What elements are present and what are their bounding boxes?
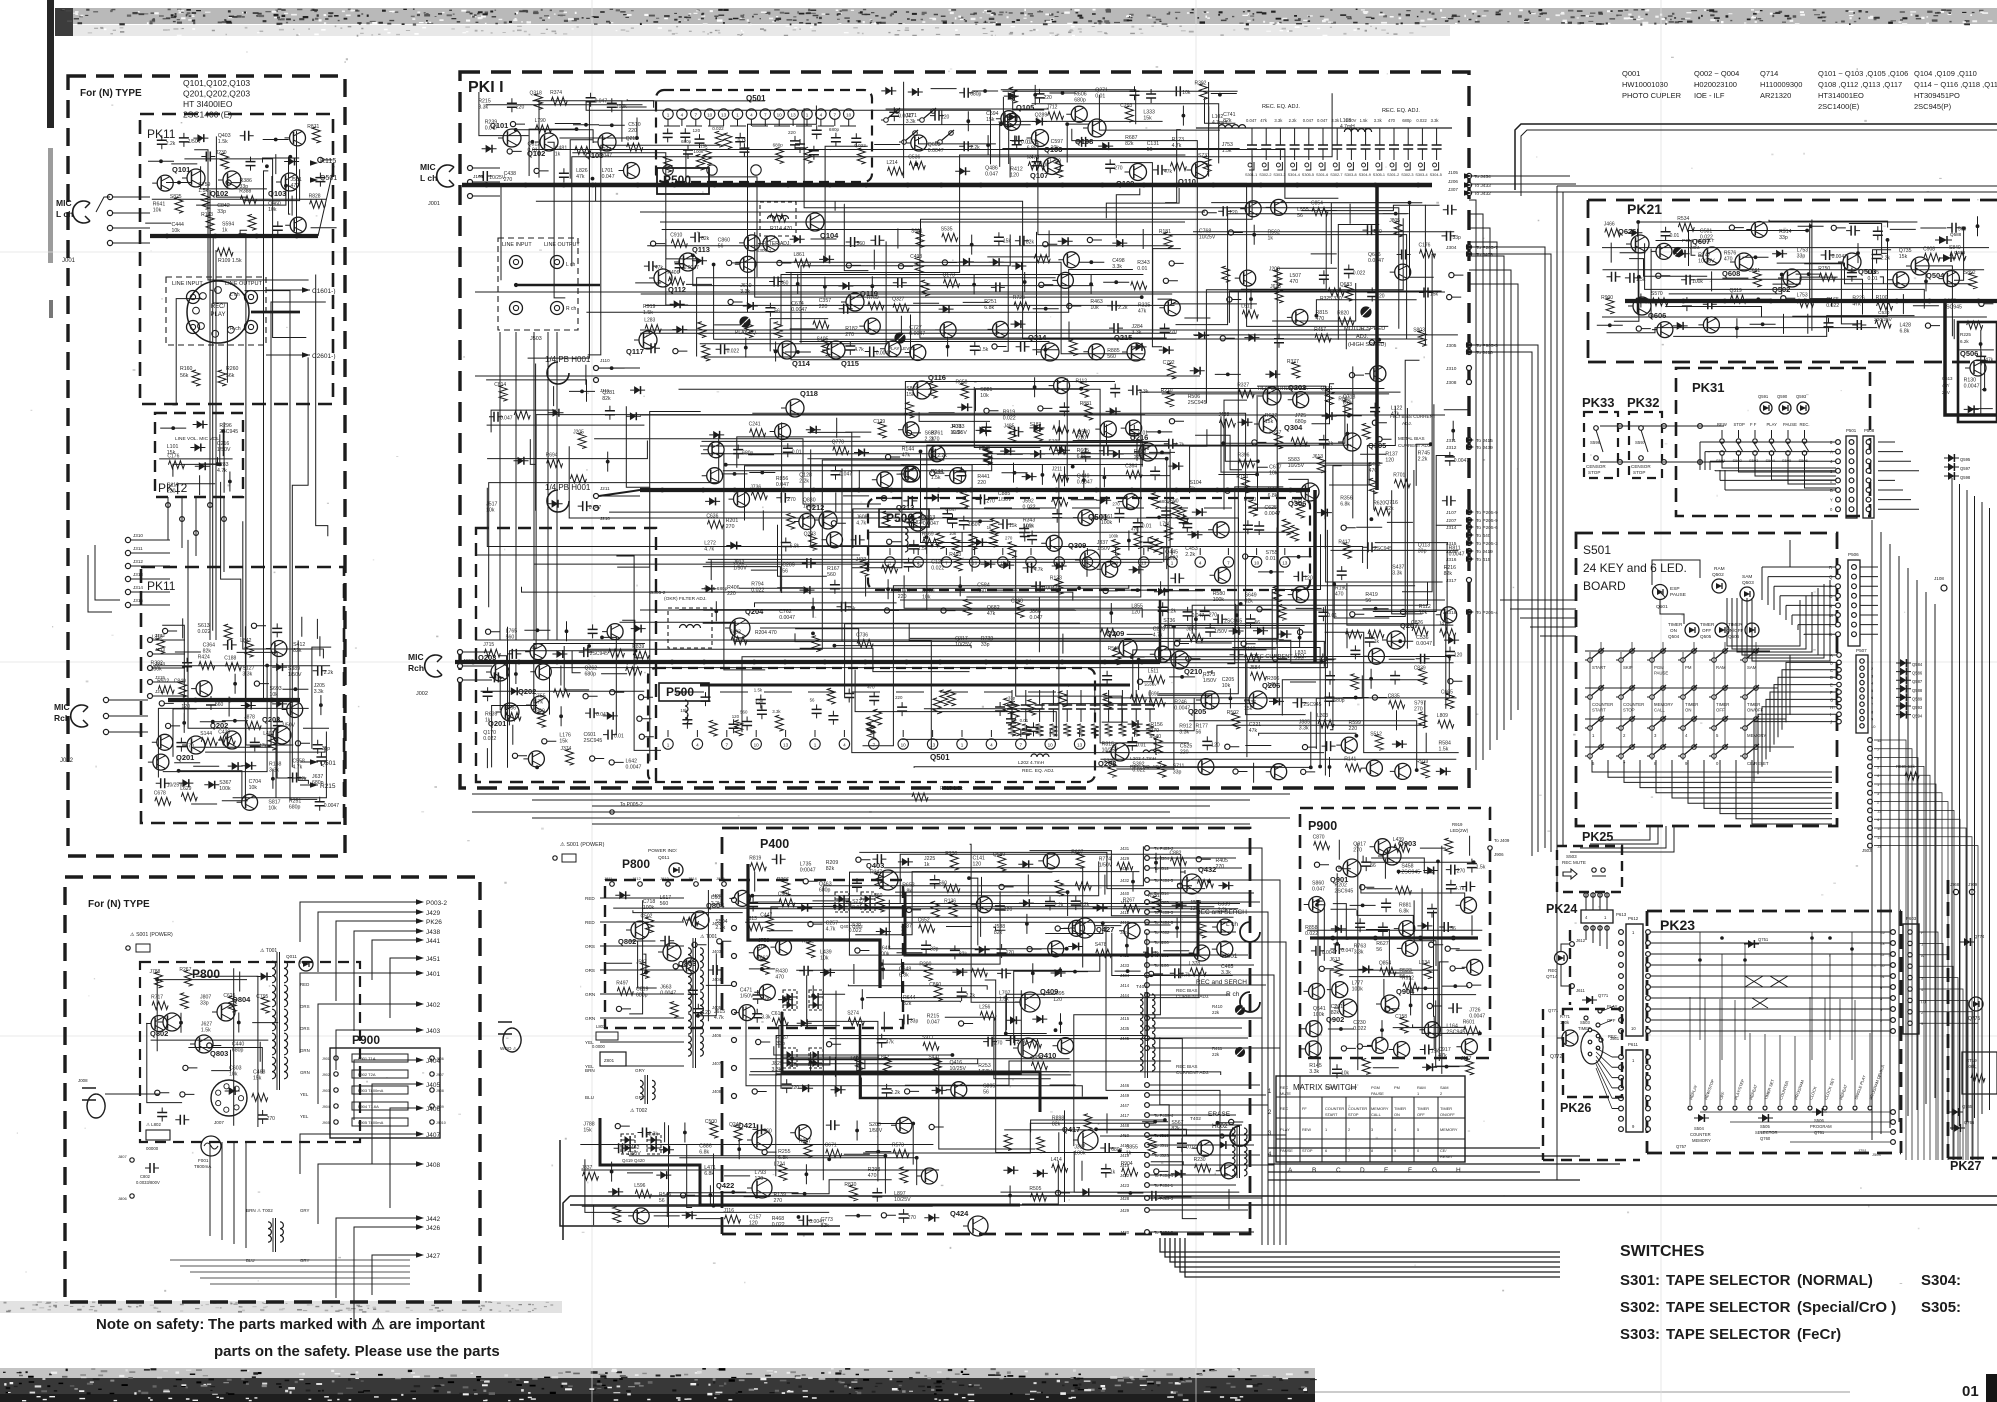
svg-text:C671: C671 xyxy=(825,1142,837,1148)
svg-text:Q204: Q204 xyxy=(745,607,764,616)
svg-text:0.0047: 0.0047 xyxy=(660,990,676,996)
thermistor block RT19 xyxy=(1962,1052,1997,1094)
svg-text:10k: 10k xyxy=(980,393,989,399)
board outline PK12 left xyxy=(155,413,243,497)
svg-text:Q107: Q107 xyxy=(1030,171,1048,180)
svg-text:0.022: 0.022 xyxy=(1003,415,1016,421)
svg-text:82k: 82k xyxy=(602,396,611,402)
svg-text:120: 120 xyxy=(1004,907,1013,913)
transistor Q802 xyxy=(631,921,649,939)
svg-text:2.2k: 2.2k xyxy=(891,1090,901,1096)
svg-text:4.7k: 4.7k xyxy=(826,926,836,932)
svg-text:10: 10 xyxy=(707,113,713,118)
svg-text:J403: J403 xyxy=(426,1028,440,1035)
svg-text:Q304: Q304 xyxy=(1284,423,1303,432)
svg-text:TIMER: TIMER xyxy=(1700,622,1715,627)
scan artifact: fold creases xyxy=(591,0,593,1402)
svg-text:56: 56 xyxy=(659,1198,665,1204)
svg-text:15k: 15k xyxy=(1265,419,1274,425)
svg-text:To J410: To J410 xyxy=(1476,350,1493,356)
cluster top mid xyxy=(885,87,1049,178)
svg-text:COUNTER: COUNTER xyxy=(1690,1132,1711,1137)
svg-text:REC MUTE: REC MUTE xyxy=(1562,860,1586,865)
svg-text:RED: RED xyxy=(300,982,309,987)
J column right of P400 xyxy=(1145,846,1150,851)
svg-text:0.01: 0.01 xyxy=(1137,266,1147,272)
svg-text:SWITCHES: SWITCHES xyxy=(1620,1243,1705,1260)
svg-text:ORS: ORS xyxy=(300,1026,310,1031)
svg-text:10: 10 xyxy=(846,113,852,118)
terminals J768 J769 xyxy=(1953,889,1958,894)
svg-text:6: 6 xyxy=(1325,1148,1327,1153)
svg-text:(OKR) FILTER ADJ.: (OKR) FILTER ADJ. xyxy=(664,596,707,602)
transistor Q901 xyxy=(1343,859,1361,877)
svg-text:6.8k: 6.8k xyxy=(899,972,909,978)
svg-text:J419: J419 xyxy=(1120,1153,1130,1158)
svg-text:82k: 82k xyxy=(1125,141,1134,147)
svg-text:560: 560 xyxy=(660,901,669,907)
svg-text:J308: J308 xyxy=(1446,380,1457,386)
svg-text:J312: J312 xyxy=(133,559,143,564)
svg-text:S592: S592 xyxy=(1733,458,1743,463)
svg-text:L753: L753 xyxy=(1797,292,1808,298)
svg-text:SAM: SAM xyxy=(1747,665,1757,670)
svg-text:TIMER: TIMER xyxy=(1417,1106,1429,1111)
svg-text:J211: J211 xyxy=(1052,467,1063,473)
svg-text:LINE VOL. MIC VOL.: LINE VOL. MIC VOL. xyxy=(175,436,220,442)
svg-text:RAM: RAM xyxy=(1417,1085,1426,1090)
svg-text:F904 T1.6A: F904 T1.6A xyxy=(358,1104,379,1109)
svg-text:STOP: STOP xyxy=(1302,1148,1313,1153)
svg-text:BLU: BLU xyxy=(585,1095,594,1100)
svg-text:220: 220 xyxy=(628,128,637,134)
svg-text:0.01: 0.01 xyxy=(1136,743,1146,749)
svg-text:STOP: STOP xyxy=(1623,708,1635,713)
svg-text:SELECTOR: SELECTOR xyxy=(1755,1130,1778,1135)
bus line main 3 xyxy=(471,660,476,665)
svg-text:L378: L378 xyxy=(1189,961,1200,967)
svg-text:Q401 Q402: Q401 Q402 xyxy=(840,924,863,929)
svg-text:R225: R225 xyxy=(1960,332,1971,337)
svg-text:TIMER: TIMER xyxy=(1747,702,1760,707)
svg-text:1/50V: 1/50V xyxy=(740,994,754,1000)
svg-text:1.5k: 1.5k xyxy=(1476,865,1486,871)
svg-text:Q101 ~ Q103 ,Q105 ,Q106: Q101 ~ Q103 ,Q105 ,Q106 xyxy=(1818,69,1908,78)
transistor Q205 xyxy=(1201,691,1219,709)
board outline PK26 xyxy=(1563,1009,1622,1097)
svg-text:RAM: RAM xyxy=(1716,665,1726,670)
connector row J401.. P400 left xyxy=(732,898,737,903)
svg-text:J715: J715 xyxy=(483,642,494,648)
scan artifact: left edge streaks xyxy=(47,0,54,128)
svg-text:S304-4: S304-4 xyxy=(1288,173,1300,177)
transistor Q110 xyxy=(1192,162,1209,179)
svg-text:C854: C854 xyxy=(1311,201,1323,207)
cluster P400 osc xyxy=(1007,1116,1236,1201)
svg-text:START: START xyxy=(1592,708,1606,713)
cluster Q506 xyxy=(1964,342,1994,413)
svg-text:J432: J432 xyxy=(1120,878,1130,883)
svg-text:R204 470: R204 470 xyxy=(755,630,777,636)
svg-text:To P905-5: To P905-5 xyxy=(1476,343,1498,349)
svg-text:S503: S503 xyxy=(1566,854,1577,859)
svg-text:L ch: L ch xyxy=(230,292,240,298)
svg-text:Q626: Q626 xyxy=(1618,227,1636,236)
svg-text:Q101,Q102,Q103: Q101,Q102,Q103 xyxy=(183,78,250,88)
svg-text:560: 560 xyxy=(740,710,748,715)
svg-text:R771: R771 xyxy=(1560,1014,1571,1019)
svg-text:J611: J611 xyxy=(1576,988,1585,993)
svg-text:J408: J408 xyxy=(712,1089,722,1094)
scan artifact: top edge band xyxy=(55,8,1997,24)
connector tail circles below xyxy=(1868,738,1873,743)
svg-text:J230: J230 xyxy=(216,150,227,156)
svg-text:To J415: To J415 xyxy=(1476,438,1493,444)
svg-text:47k: 47k xyxy=(987,611,996,617)
cluster Q105-Q110 xyxy=(999,81,1236,175)
svg-text:0.01: 0.01 xyxy=(1095,94,1105,100)
svg-text:PAUSE: PAUSE xyxy=(1371,1091,1384,1096)
svg-text:0.047: 0.047 xyxy=(1246,118,1257,123)
svg-text:Q103: Q103 xyxy=(268,189,286,198)
svg-text:0.047: 0.047 xyxy=(927,1020,940,1026)
transistor Q421 xyxy=(752,1130,772,1150)
DIN socket J561 xyxy=(1581,1030,1603,1064)
transistor Q102 main xyxy=(540,133,558,151)
transistor Q103 main xyxy=(598,133,616,151)
svg-text:Q774: Q774 xyxy=(1974,934,1985,939)
svg-text:S303-4: S303-4 xyxy=(1415,173,1427,177)
pot PLAY EQ xyxy=(740,317,750,327)
svg-text:CALL: CALL xyxy=(1654,708,1665,713)
opto Q775 xyxy=(1969,997,1983,1011)
svg-text:5: 5 xyxy=(1417,1127,1419,1132)
svg-text:To J419: To J419 xyxy=(1476,549,1493,555)
svg-text:P900: P900 xyxy=(352,1033,380,1047)
bus line main 1 xyxy=(484,183,489,188)
svg-text:10: 10 xyxy=(1048,743,1054,748)
svg-text:J448: J448 xyxy=(1120,1123,1130,1128)
svg-text:1.5k: 1.5k xyxy=(201,1028,211,1034)
svg-text:10k: 10k xyxy=(153,208,162,214)
diode Q774 xyxy=(1964,938,1970,946)
svg-text:C678: C678 xyxy=(154,790,166,796)
svg-text:PK33: PK33 xyxy=(1582,395,1615,410)
svg-text:270: 270 xyxy=(1005,536,1013,541)
svg-text:J814: J814 xyxy=(688,876,697,881)
cluster mid right xyxy=(1198,199,1461,345)
svg-text:PK32: PK32 xyxy=(1627,395,1660,410)
svg-text:15k: 15k xyxy=(559,739,568,745)
svg-text:7: 7 xyxy=(695,113,698,118)
transistor Q105 xyxy=(1004,114,1021,131)
svg-text:1: 1 xyxy=(667,113,670,118)
svg-text:J751: J751 xyxy=(1858,1148,1867,1153)
svg-text:ON/OFF: ON/OFF xyxy=(1440,1112,1455,1117)
svg-text:CENSOR: CENSOR xyxy=(1631,464,1651,469)
svg-text:AR21320: AR21320 xyxy=(1760,91,1791,100)
cluster P800N xyxy=(150,967,276,1122)
transistor Q409 xyxy=(1020,992,1040,1012)
svg-text:680p: 680p xyxy=(819,887,831,893)
svg-text:J107: J107 xyxy=(1446,510,1457,516)
svg-text:TIMER: TIMER xyxy=(1440,1106,1452,1111)
bus line PK21 xyxy=(1646,299,1651,304)
svg-text:2SC945: 2SC945 xyxy=(1188,400,1207,406)
svg-text:S594: S594 xyxy=(1766,458,1776,463)
svg-text:R230: R230 xyxy=(1194,1157,1206,1163)
transistor Q104 xyxy=(806,213,824,231)
svg-text:9: 9 xyxy=(1394,1148,1396,1153)
svg-text:Q011: Q011 xyxy=(286,954,297,959)
svg-text:BOARD: BOARD xyxy=(1583,579,1626,593)
board outline PK21 xyxy=(1588,200,1997,362)
svg-text:J105: J105 xyxy=(1448,170,1458,175)
svg-text:2: 2 xyxy=(1348,1127,1350,1132)
A-J wires to P507 xyxy=(1837,653,1842,658)
svg-text:47k: 47k xyxy=(1249,728,1258,734)
svg-text:F001: F001 xyxy=(198,1158,209,1163)
svg-text:2SC945(P): 2SC945(P) xyxy=(1914,102,1952,111)
svg-text:J008: J008 xyxy=(78,1078,88,1083)
svg-text:220: 220 xyxy=(516,104,525,110)
svg-text:S305:: S305: xyxy=(1921,1299,1961,1316)
svg-text:13: 13 xyxy=(791,113,797,118)
svg-text:(NORMAL): (NORMAL) xyxy=(1797,1272,1873,1289)
svg-text:0.0047: 0.0047 xyxy=(800,867,816,873)
svg-text:10: 10 xyxy=(972,561,978,566)
svg-text:R828: R828 xyxy=(309,193,321,199)
transistor Q101 xyxy=(187,169,205,187)
svg-text:Q001: Q001 xyxy=(1622,69,1640,78)
svg-text:L ch: L ch xyxy=(566,262,575,268)
svg-text:CURRENT ADJ.: CURRENT ADJ. xyxy=(1176,1070,1209,1075)
svg-text:SAM: SAM xyxy=(1742,574,1752,580)
svg-text:H110009300: H110009300 xyxy=(1760,80,1802,89)
svg-text:0.047: 0.047 xyxy=(1317,118,1328,123)
svg-text:R750: R750 xyxy=(1818,266,1830,272)
svg-text:120: 120 xyxy=(1010,172,1019,178)
svg-text:J613: J613 xyxy=(1312,454,1323,460)
svg-text:J001: J001 xyxy=(428,201,440,207)
svg-text:0.047: 0.047 xyxy=(1303,118,1314,123)
svg-text:15k: 15k xyxy=(1899,254,1908,260)
svg-text:R410: R410 xyxy=(1212,1004,1223,1009)
cluster Lch input xyxy=(478,90,640,183)
transistor Q101 main xyxy=(503,129,521,147)
svg-text:2.2k: 2.2k xyxy=(1289,118,1298,123)
board outline PK11 upper-left xyxy=(140,114,333,404)
svg-text:Q503: Q503 xyxy=(1858,267,1876,276)
svg-text:56: 56 xyxy=(718,244,724,250)
svg-text:CE/: CE/ xyxy=(1440,1148,1447,1153)
svg-text:J613: J613 xyxy=(1330,957,1341,963)
svg-text:10/25V: 10/25V xyxy=(1144,682,1157,687)
svg-text:J206: J206 xyxy=(1448,179,1458,184)
svg-text:7: 7 xyxy=(764,113,767,118)
svg-text:S504: S504 xyxy=(1694,1126,1704,1131)
svg-text:J902: J902 xyxy=(322,1073,330,1077)
svg-text:R694: R694 xyxy=(546,452,558,458)
svg-text:10: 10 xyxy=(754,743,760,748)
svg-text:To P205-9: To P205-9 xyxy=(1476,510,1498,516)
svg-text:LED(2W): LED(2W) xyxy=(1450,828,1469,833)
svg-text:47k: 47k xyxy=(1260,118,1268,123)
svg-text:Q101: Q101 xyxy=(172,165,190,174)
svg-text:R396: R396 xyxy=(1238,452,1250,458)
svg-text:Q757: Q757 xyxy=(1676,1144,1687,1149)
svg-text:0.01: 0.01 xyxy=(1266,556,1276,562)
svg-text:470: 470 xyxy=(775,975,784,981)
svg-text:J807: J807 xyxy=(118,1154,127,1159)
svg-text:L790: L790 xyxy=(535,118,546,124)
svg-text:Q309: Q309 xyxy=(1068,541,1086,550)
svg-text:R701: R701 xyxy=(1393,473,1405,479)
svg-text:MIC: MIC xyxy=(54,702,70,712)
svg-text:J406: J406 xyxy=(426,1106,440,1113)
svg-text:Q502: Q502 xyxy=(1712,572,1724,578)
transistor Q206 xyxy=(1249,691,1267,709)
svg-text:Q422: Q422 xyxy=(716,1181,734,1190)
svg-text:PAUSE: PAUSE xyxy=(1280,1148,1293,1153)
svg-text:J908: J908 xyxy=(436,1089,444,1093)
svg-text:0.0047: 0.0047 xyxy=(1964,384,1980,390)
transistor Q209 xyxy=(1119,639,1137,657)
svg-text:STOP: STOP xyxy=(1633,470,1645,475)
svg-text:0.022: 0.022 xyxy=(1353,271,1366,277)
svg-text:Q210: Q210 xyxy=(1184,667,1202,676)
svg-text:4: 4 xyxy=(1199,561,1202,566)
svg-text:PK27: PK27 xyxy=(1950,1159,1981,1173)
AC plug N xyxy=(82,1088,105,1118)
svg-text:CALL: CALL xyxy=(1371,1112,1382,1117)
svg-text:1k: 1k xyxy=(987,525,992,530)
svg-text:24 KEY and 6 LED.: 24 KEY and 6 LED. xyxy=(1583,561,1687,575)
svg-text:J905: J905 xyxy=(322,1121,330,1125)
svg-text:7: 7 xyxy=(726,743,729,748)
svg-text:3: 3 xyxy=(1371,1127,1373,1132)
svg-text:J402: J402 xyxy=(712,921,722,926)
svg-text:R534: R534 xyxy=(1677,216,1689,222)
svg-text:1k: 1k xyxy=(555,152,561,158)
svg-text:J769: J769 xyxy=(1968,882,1978,887)
svg-text:L134: L134 xyxy=(1419,960,1430,966)
svg-text:470: 470 xyxy=(1163,624,1172,630)
svg-text:OFF: OFF xyxy=(1716,708,1725,713)
svg-text:270: 270 xyxy=(267,1116,276,1122)
svg-text:3.3k: 3.3k xyxy=(314,689,324,695)
svg-text:ORS: ORS xyxy=(585,944,595,949)
svg-text:R327: R327 xyxy=(1237,383,1249,389)
svg-text:COUNTER: COUNTER xyxy=(1348,1106,1367,1111)
transistor Q803 xyxy=(663,943,681,961)
svg-text:H001: H001 xyxy=(1222,953,1238,960)
board outline PK31 xyxy=(1676,368,1870,516)
svg-text:47k: 47k xyxy=(1985,357,1994,363)
svg-text:REC. EQ. ADJ.: REC. EQ. ADJ. xyxy=(1022,768,1055,774)
svg-text:TIMER: TIMER xyxy=(1728,622,1743,627)
svg-text:To P005-2: To P005-2 xyxy=(620,802,643,808)
svg-text:S301:: S301: xyxy=(1620,1272,1660,1289)
svg-text:680p: 680p xyxy=(681,139,692,144)
svg-text:MEMORY: MEMORY xyxy=(1371,1106,1389,1111)
pot PGM select xyxy=(1674,248,1683,257)
svg-text:0.0047: 0.0047 xyxy=(1416,641,1432,647)
svg-text:J901: J901 xyxy=(322,1057,330,1061)
svg-text:(FeCr): (FeCr) xyxy=(1797,1326,1841,1343)
board outline For (N) TYPE lower xyxy=(65,877,480,1302)
cluster Q421 xyxy=(582,1117,938,1229)
switch S597 xyxy=(1639,426,1644,431)
svg-text:J435: J435 xyxy=(1120,1026,1130,1031)
svg-text:15k: 15k xyxy=(253,1076,262,1082)
svg-text:10k: 10k xyxy=(1269,471,1278,477)
svg-text:H: H xyxy=(1456,1167,1461,1174)
transistor Q208 xyxy=(1111,743,1129,761)
svg-text:J447: J447 xyxy=(1120,1103,1130,1108)
cluster P800 xyxy=(616,890,775,1021)
svg-text:J561: J561 xyxy=(1610,1036,1620,1041)
transistor Q802 N xyxy=(163,1013,181,1031)
svg-text:J788: J788 xyxy=(150,969,161,975)
svg-text:120: 120 xyxy=(1385,458,1394,464)
svg-text:P800: P800 xyxy=(192,967,220,981)
svg-text:3.3k: 3.3k xyxy=(1354,949,1364,955)
transistor Q118 xyxy=(786,399,804,417)
svg-text:L861: L861 xyxy=(794,252,805,258)
svg-text:4.7k: 4.7k xyxy=(1153,633,1163,639)
svg-text:10k: 10k xyxy=(268,806,277,812)
svg-text:Q108 ,Q112 ,Q113 ,Q117: Q108 ,Q112 ,Q113 ,Q117 xyxy=(1818,80,1902,89)
svg-text:S302-7: S302-7 xyxy=(1330,173,1342,177)
transistor Q804 N xyxy=(217,1003,235,1021)
svg-text:4.7k: 4.7k xyxy=(856,520,866,526)
svg-text:R424: R424 xyxy=(198,655,210,661)
svg-text:13: 13 xyxy=(1282,561,1288,566)
board outline P800 xyxy=(605,880,903,1028)
svg-text:COUNTER: COUNTER xyxy=(1623,702,1644,707)
transformer T001 (N) xyxy=(260,948,310,1119)
svg-text:P612: P612 xyxy=(1628,916,1639,921)
svg-text:J430: J430 xyxy=(1120,1230,1130,1235)
svg-text:To P205-4: To P205-4 xyxy=(1476,610,1498,616)
svg-text:Q714: Q714 xyxy=(1760,69,1778,78)
svg-text:2SC1400(E): 2SC1400(E) xyxy=(1818,102,1860,111)
svg-text:C870: C870 xyxy=(1313,835,1325,841)
svg-text:S274: S274 xyxy=(847,1011,859,1017)
svg-text:S505: S505 xyxy=(1760,1124,1770,1129)
svg-text:0.01: 0.01 xyxy=(1020,718,1029,723)
svg-text:Q114: Q114 xyxy=(792,359,811,368)
relay L802 N xyxy=(146,1130,170,1140)
svg-text:C736: C736 xyxy=(856,633,868,639)
svg-text:0.0047: 0.0047 xyxy=(923,521,939,527)
scan artifact: bottom-left fold strip xyxy=(0,1301,562,1313)
svg-text:0.047: 0.047 xyxy=(776,482,789,488)
svg-text:J405: J405 xyxy=(426,1082,440,1089)
svg-text:0.022: 0.022 xyxy=(483,736,496,742)
test point labels right xyxy=(1467,245,1472,250)
svg-text:Q201,Q202,Q203: Q201,Q202,Q203 xyxy=(183,89,250,99)
svg-text:REC. EQ. ADJ.: REC. EQ. ADJ. xyxy=(1262,104,1300,110)
svg-text:P506: P506 xyxy=(1848,552,1859,557)
transistor Q109 xyxy=(1130,164,1147,181)
svg-text:10/25V: 10/25V xyxy=(1199,235,1216,241)
svg-text:L ch: L ch xyxy=(56,209,73,219)
svg-text:0.022: 0.022 xyxy=(1353,1026,1366,1032)
svg-text:J429: J429 xyxy=(1120,856,1130,861)
svg-text:S303-8: S303-8 xyxy=(1344,173,1356,177)
